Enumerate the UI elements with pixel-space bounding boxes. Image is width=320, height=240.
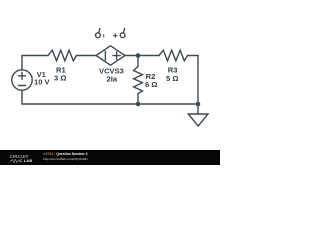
svg-text:2Ia: 2Ia: [107, 75, 118, 84]
svg-text:3 Ω: 3 Ω: [54, 74, 66, 83]
svg-text:10 V: 10 V: [34, 78, 51, 87]
svg-text:6 Ω: 6 Ω: [145, 80, 157, 89]
svg-text:5 Ω: 5 Ω: [166, 74, 178, 83]
